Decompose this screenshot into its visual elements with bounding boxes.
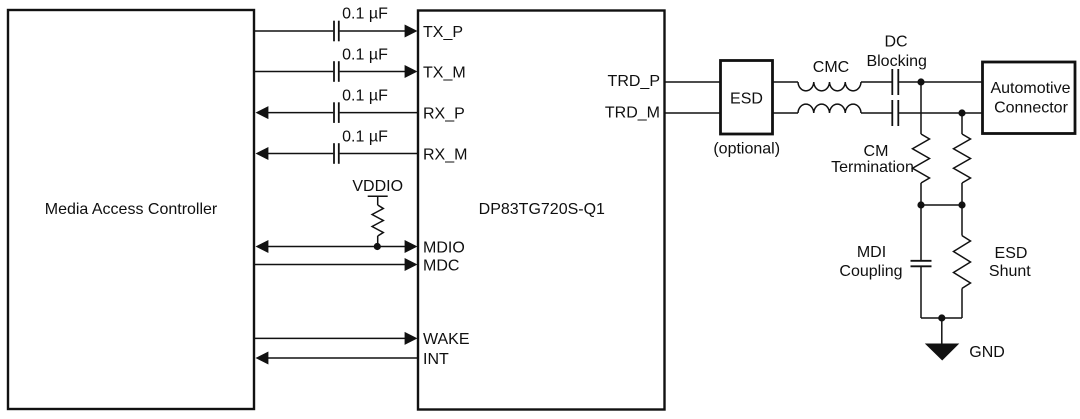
resistor R4 ESD shunt — [954, 205, 971, 318]
wire ESD to CMC bottom — [773, 112, 799, 114]
Media Access Controller block — [8, 10, 254, 409]
svg-text:RX_M: RX_M — [423, 146, 467, 163]
resistor R2 CM termination (left) — [913, 82, 930, 205]
wire RX_M — [256, 147, 419, 160]
svg-text:(optional): (optional) — [713, 140, 780, 157]
svg-text:TRD_M: TRD_M — [605, 105, 660, 122]
label DC Blocking — [866, 33, 926, 69]
svg-text:0.1 µF: 0.1 µF — [342, 6, 388, 23]
power rail VDDIO — [352, 178, 403, 196]
node junction mid-right — [958, 201, 965, 208]
common-mode choke CMC winding 1 — [798, 82, 861, 91]
svg-text:Automotive: Automotive — [990, 80, 1070, 97]
capacitor C7 MDI coupling — [911, 205, 932, 318]
wire WAKE — [254, 332, 418, 345]
svg-text:Shunt: Shunt — [989, 263, 1031, 280]
ESD protection block U1 (optional) — [713, 61, 780, 158]
svg-text:MDI: MDI — [857, 244, 886, 261]
svg-text:TRD_P: TRD_P — [608, 73, 660, 90]
wire TX_M — [254, 65, 418, 78]
svg-text:Termination: Termination — [831, 159, 914, 176]
wire TX_P — [254, 25, 418, 38]
wire bottom bus — [921, 317, 962, 319]
DP83TG720S-Q1 block — [418, 11, 665, 410]
svg-text:0.1 µF: 0.1 µF — [342, 46, 388, 63]
svg-text:TX_M: TX_M — [423, 64, 466, 81]
svg-text:CMC: CMC — [813, 59, 849, 76]
svg-text:ESD: ESD — [995, 245, 1028, 262]
svg-text:TX_P: TX_P — [423, 24, 463, 41]
capacitor C6 DC blocking (bottom) — [892, 100, 898, 126]
wire ESD to CMC top — [773, 81, 799, 83]
svg-text:Media Access Controller: Media Access Controller — [45, 201, 218, 218]
capacitor C2 0.1 uF (TX_M) — [334, 46, 388, 82]
wire TRD_M to ESD — [665, 112, 721, 114]
common-mode choke CMC winding 2 — [798, 104, 861, 113]
capacitor C4 0.1 uF (RX_M) — [334, 129, 388, 164]
svg-text:VDDIO: VDDIO — [352, 178, 403, 195]
wire MDIO (bidirectional) — [256, 240, 418, 253]
svg-text:CM: CM — [864, 143, 889, 160]
svg-text:INT: INT — [423, 351, 449, 368]
svg-text:Connector: Connector — [994, 100, 1068, 117]
Automotive Connector block J1 — [983, 62, 1076, 134]
capacitor C1 0.1 uF (TX_P) — [334, 6, 388, 42]
node junction on MDIO — [374, 243, 381, 250]
svg-text:MDIO: MDIO — [423, 239, 465, 256]
label CM Termination — [831, 143, 914, 176]
wire CMC to DC blocking top — [861, 81, 892, 83]
wire mid bus — [921, 204, 962, 206]
resistor R3 CM termination (right) — [954, 113, 971, 205]
svg-text:ESD: ESD — [730, 90, 763, 107]
wire DC blocking to connector bottom — [899, 112, 983, 114]
node junction GND tap — [938, 314, 945, 321]
svg-text:DP83TG720S-Q1: DP83TG720S-Q1 — [479, 201, 605, 218]
wire MDC — [254, 258, 418, 271]
svg-text:MDC: MDC — [423, 257, 459, 274]
resistor R1 (VDDIO pull-up) — [372, 196, 383, 246]
wire INT — [256, 352, 419, 365]
svg-text:0.1 µF: 0.1 µF — [342, 88, 388, 105]
svg-text:Blocking: Blocking — [866, 53, 926, 70]
capacitor C3 0.1 uF (RX_P) — [334, 88, 388, 123]
capacitor C5 DC blocking (top) — [892, 69, 898, 95]
svg-text:0.1 µF: 0.1 µF — [342, 129, 388, 146]
label MDI Coupling — [839, 244, 902, 280]
svg-text:Coupling: Coupling — [839, 263, 902, 280]
wire CMC to DC blocking bottom — [861, 112, 892, 114]
svg-text:DC: DC — [884, 33, 907, 50]
wire DC blocking to connector top — [899, 81, 983, 83]
node junction bottom (CM termination tap) — [958, 109, 965, 116]
wire RX_P — [256, 106, 419, 119]
node junction mid-left — [917, 201, 924, 208]
svg-text:RX_P: RX_P — [423, 105, 465, 122]
svg-text:WAKE: WAKE — [423, 331, 470, 348]
node junction top (CM termination tap) — [917, 78, 924, 85]
ground symbol — [925, 318, 960, 361]
wire TRD_P to ESD — [665, 81, 721, 83]
svg-text:GND: GND — [969, 344, 1005, 361]
label ESD Shunt — [989, 245, 1031, 280]
